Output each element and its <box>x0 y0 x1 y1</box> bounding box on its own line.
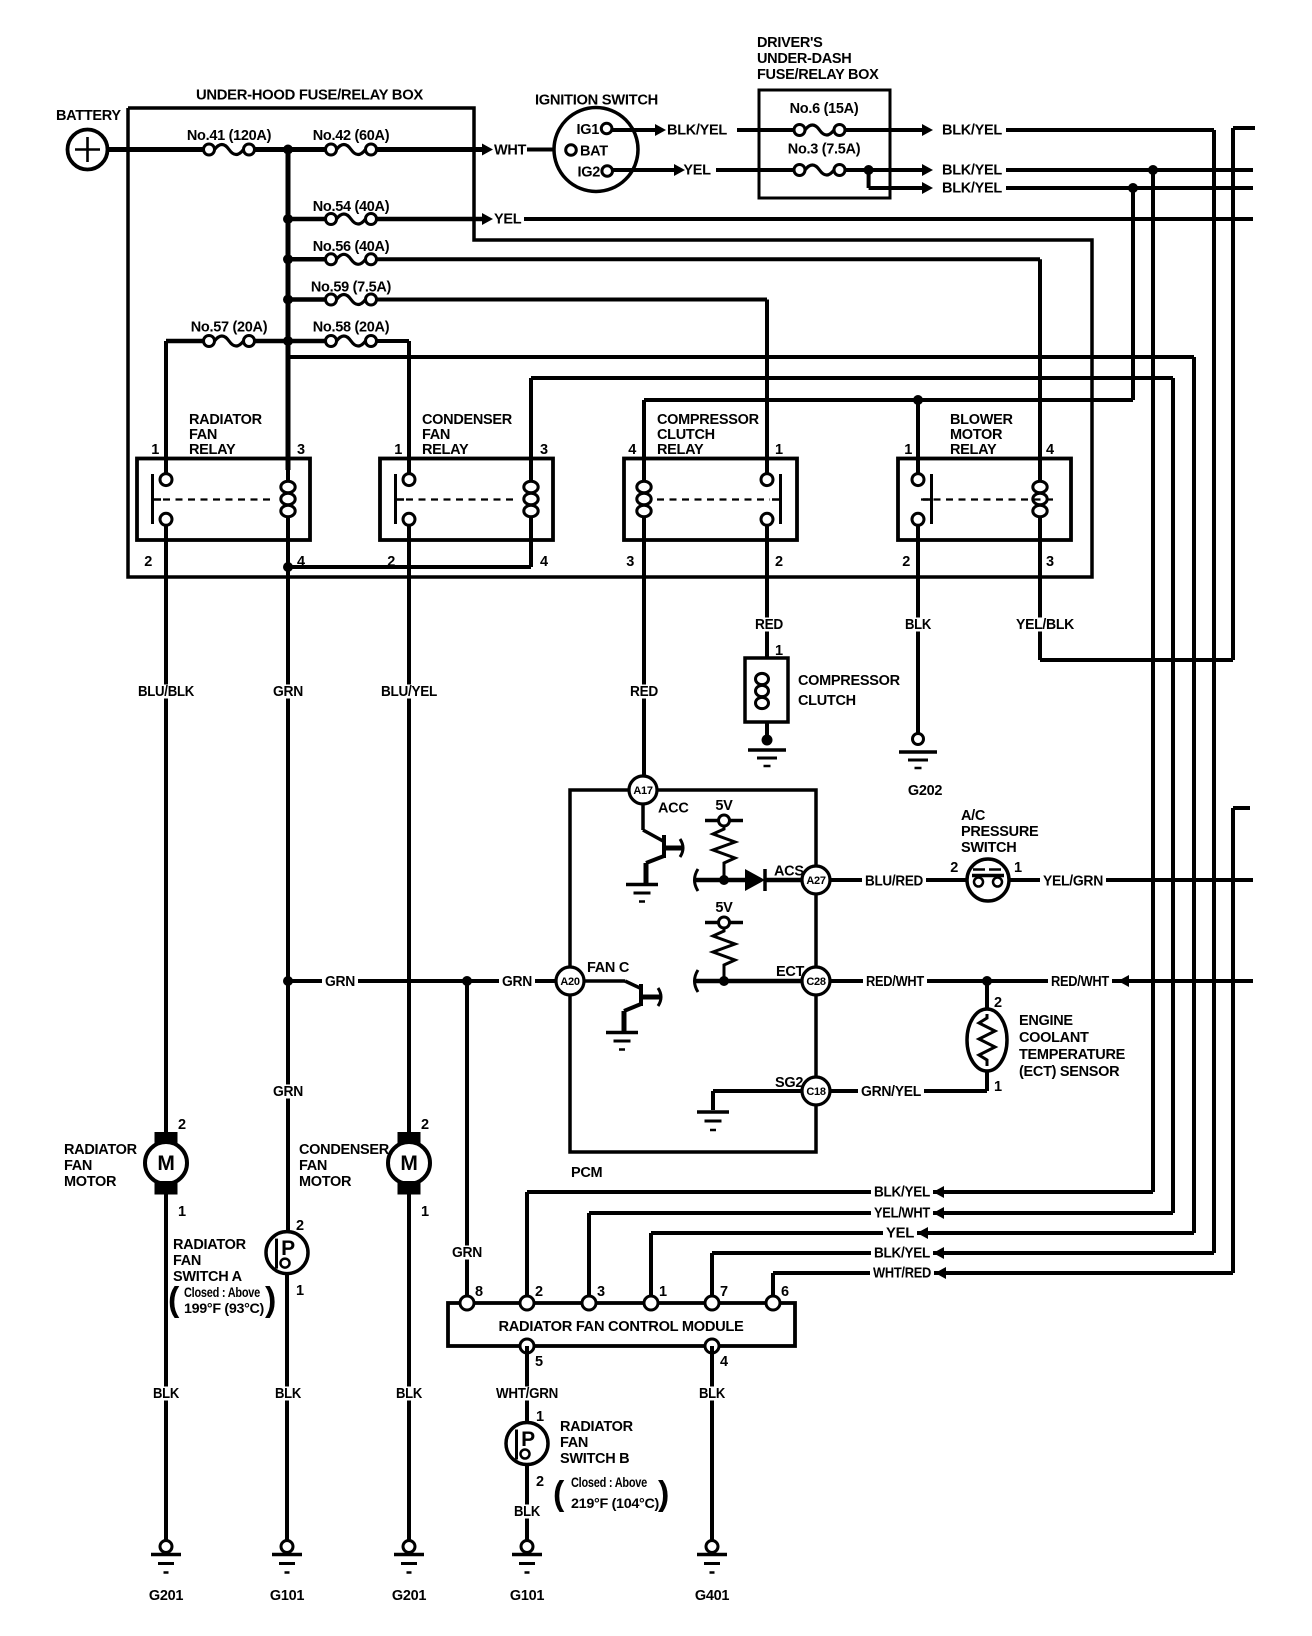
ground below compressor clutch <box>748 722 786 766</box>
svg-text:2: 2 <box>178 1117 186 1133</box>
wire BLU/RED to A/C pressure switch <box>830 874 967 890</box>
module pin 6 <box>766 1284 789 1310</box>
wire BLK/YEL to module pin 2 <box>527 1185 1153 1304</box>
svg-text:RED: RED <box>630 684 658 700</box>
svg-text:YEL: YEL <box>494 212 522 228</box>
svg-text:A17: A17 <box>633 785 652 797</box>
terminal IG1 <box>577 122 612 138</box>
svg-text:YEL: YEL <box>886 1226 914 1242</box>
node ECT junction <box>719 976 729 986</box>
svg-text:): ) <box>658 1475 669 1513</box>
relay radiator fan relay <box>137 412 310 570</box>
svg-text:No.57 (20A): No.57 (20A) <box>191 320 268 336</box>
svg-text:ECT: ECT <box>776 964 805 980</box>
wire GRN/YEL row <box>830 1084 987 1100</box>
svg-text:(: ( <box>168 1281 180 1319</box>
wire YEL long row <box>524 217 1253 221</box>
terminal IG2 <box>578 165 613 181</box>
wire battery to fuse box <box>108 147 203 152</box>
svg-text:1: 1 <box>151 442 159 458</box>
radiator fan control module box <box>448 1303 795 1346</box>
wire condenser pin2 column BLU/YEL <box>378 525 440 1132</box>
wire IG1 BLK/YEL to under-dash box <box>612 123 793 139</box>
svg-text:BAT: BAT <box>580 144 608 160</box>
module pin 8 <box>460 1284 483 1310</box>
svg-text:2: 2 <box>775 554 783 570</box>
node ECT sensor junction <box>982 976 992 986</box>
node bus No.59 <box>283 295 293 305</box>
svg-text:IG1: IG1 <box>577 122 600 138</box>
svg-text:2: 2 <box>902 554 910 570</box>
fuse No.59 (7.5A) <box>288 280 392 306</box>
svg-text:1: 1 <box>659 1284 667 1300</box>
svg-text:3: 3 <box>297 442 305 458</box>
svg-text:C28: C28 <box>806 976 825 988</box>
relay blower motor relay <box>898 412 1071 570</box>
svg-text:RADIATOR: RADIATOR <box>173 1237 247 1253</box>
svg-text:SWITCH A: SWITCH A <box>173 1269 243 1285</box>
node bus No.56 <box>283 254 293 264</box>
svg-text:3: 3 <box>626 554 634 570</box>
svg-text:RELAY: RELAY <box>422 442 469 458</box>
svg-text:BLK/YEL: BLK/YEL <box>667 123 727 139</box>
fuse No.54 (40A) <box>288 199 390 225</box>
svg-text:2: 2 <box>144 554 152 570</box>
svg-text:5V: 5V <box>715 798 733 814</box>
ground G401 module <box>695 1541 730 1605</box>
svg-text:4: 4 <box>540 554 548 570</box>
ground FAN C emitter <box>606 1033 638 1050</box>
ground G101 switch B <box>510 1541 545 1605</box>
svg-text:WHT/RED: WHT/RED <box>873 1266 931 1282</box>
wire No.59 to compressor relay pin 1 <box>377 300 768 474</box>
svg-text:G201: G201 <box>149 1588 184 1604</box>
condenser fan motor <box>299 1117 430 1220</box>
module pin 1 <box>644 1284 667 1310</box>
compressor clutch <box>745 658 901 722</box>
PCM box <box>570 790 816 1181</box>
svg-text:FAN: FAN <box>189 427 217 443</box>
svg-text:PRESSURE: PRESSURE <box>961 824 1039 840</box>
svg-text:Closed : Above: Closed : Above <box>184 1285 261 1300</box>
pin C28 <box>802 967 830 995</box>
svg-text:4: 4 <box>628 442 636 458</box>
svg-text:G101: G101 <box>270 1588 305 1604</box>
module pin 4 <box>705 1339 728 1370</box>
svg-text:FAN C: FAN C <box>587 960 630 976</box>
svg-text:M: M <box>400 1152 417 1175</box>
wire IG2 YEL to under-dash box <box>613 163 794 179</box>
wire WHT to BAT <box>527 148 566 152</box>
svg-text:C18: C18 <box>806 1086 825 1098</box>
svg-text:No.6 (15A): No.6 (15A) <box>790 101 859 117</box>
svg-text:BLK: BLK <box>699 1386 726 1402</box>
svg-text:MOTOR: MOTOR <box>950 427 1003 443</box>
svg-text:MOTOR: MOTOR <box>299 1174 352 1190</box>
svg-text:BLK: BLK <box>514 1504 541 1520</box>
A/C pressure switch <box>950 808 1039 901</box>
svg-text:A27: A27 <box>806 875 825 887</box>
node GRN module branch <box>462 976 472 986</box>
svg-text:BLK/YEL: BLK/YEL <box>942 163 1002 179</box>
svg-text:RADIATOR: RADIATOR <box>189 412 263 428</box>
wire No.58 to condenser relay pin 1 <box>288 341 409 474</box>
svg-text:RADIATOR FAN CONTROL MODULE: RADIATOR FAN CONTROL MODULE <box>499 1319 745 1335</box>
wire module pin5 WHT/GRN <box>493 1346 561 1423</box>
pin C18 <box>802 1077 830 1105</box>
svg-text:WHT: WHT <box>494 143 527 159</box>
svg-text:199°F (93°C): 199°F (93°C) <box>184 1301 264 1316</box>
svg-text:BLU/BLK: BLU/BLK <box>138 684 195 700</box>
under-hood fuse/relay box outline <box>128 108 1092 577</box>
label DRIVER'S UNDER-DASH FUSE/RELAY BOX <box>757 35 879 83</box>
svg-text:YEL: YEL <box>683 163 711 179</box>
fuse No.41 (120A) <box>187 128 272 155</box>
svg-text:YEL/GRN: YEL/GRN <box>1043 874 1103 890</box>
ignition switch <box>535 93 658 192</box>
module pin 5 <box>520 1339 543 1370</box>
svg-text:1: 1 <box>994 1079 1002 1095</box>
pin A27 <box>802 866 830 894</box>
relay condenser fan relay <box>380 412 553 570</box>
svg-text:BLK: BLK <box>905 617 932 633</box>
wire condenser motor to ground <box>393 1195 425 1541</box>
svg-text:1: 1 <box>904 442 912 458</box>
battery <box>56 108 121 170</box>
svg-text:219°F (104°C): 219°F (104°C) <box>571 1496 659 1511</box>
node bus top junction <box>283 145 293 155</box>
svg-text:IGNITION SWITCH: IGNITION SWITCH <box>535 93 658 109</box>
svg-text:BLK: BLK <box>396 1386 423 1402</box>
svg-text:5V: 5V <box>715 900 733 916</box>
svg-text:CLUTCH: CLUTCH <box>657 427 715 443</box>
wire module pin4 BLK to ground <box>696 1346 728 1541</box>
svg-text:1: 1 <box>296 1283 304 1299</box>
wire ECT row <box>695 964 805 992</box>
svg-text:2: 2 <box>421 1117 429 1133</box>
wire BLK/YEL to module pin 7 <box>712 1246 1214 1304</box>
wire BLK/YEL row3 vertical to relay feed row <box>1131 188 1135 400</box>
svg-text:No.54 (40A): No.54 (40A) <box>313 199 390 215</box>
svg-text:TEMPERATURE: TEMPERATURE <box>1019 1047 1126 1063</box>
svg-text:No.3 (7.5A): No.3 (7.5A) <box>788 142 861 158</box>
label ACC <box>658 801 689 817</box>
svg-text:COOLANT: COOLANT <box>1019 1030 1089 1046</box>
svg-text:UNDER-DASH: UNDER-DASH <box>757 51 851 67</box>
wire switch B to ground <box>511 1465 543 1541</box>
svg-text:2: 2 <box>535 1284 543 1300</box>
svg-text:FAN: FAN <box>173 1253 201 1269</box>
svg-text:No.41 (120A): No.41 (120A) <box>187 128 272 144</box>
wire No.57 to radiator relay pin 1 <box>166 341 288 474</box>
wire bus branch row to right margin <box>288 357 1194 1233</box>
svg-text:1: 1 <box>178 1204 186 1220</box>
module pin 2 <box>520 1284 543 1310</box>
wire fuse41 to bus junction <box>256 147 326 152</box>
5V source 2 <box>705 900 743 928</box>
wire YEL to module pin 1 <box>651 1226 1194 1304</box>
svg-text:BLK/YEL: BLK/YEL <box>874 1246 930 1262</box>
svg-text:BLK/YEL: BLK/YEL <box>874 1185 930 1201</box>
resistor R1 pull-up <box>713 826 735 876</box>
svg-text:1: 1 <box>536 1409 544 1425</box>
wire YEL/WHT to module pin 3 <box>589 1206 1173 1304</box>
svg-text:FAN: FAN <box>560 1435 588 1451</box>
svg-text:RELAY: RELAY <box>950 442 997 458</box>
relay compressor clutch relay <box>624 412 797 570</box>
ground ACC emitter <box>626 885 658 902</box>
svg-text:3: 3 <box>540 442 548 458</box>
svg-text:CLUTCH: CLUTCH <box>798 693 856 709</box>
svg-text:2: 2 <box>994 995 1002 1011</box>
svg-text:No.42 (60A): No.42 (60A) <box>313 128 390 144</box>
vertical bus after No.41 <box>286 150 291 471</box>
wire YEL/GRN row <box>1009 874 1253 890</box>
svg-text:5: 5 <box>535 1354 543 1370</box>
svg-text:8: 8 <box>475 1284 483 1300</box>
wire condenser coil pin3 feed row <box>531 378 1173 1213</box>
pin A17 <box>629 776 657 804</box>
svg-text:FUSE/RELAY BOX: FUSE/RELAY BOX <box>757 67 879 83</box>
svg-text:RED: RED <box>755 617 783 633</box>
svg-text:P: P <box>281 1237 295 1260</box>
terminal BAT <box>566 144 609 160</box>
wire blower relay pin 1 drop <box>916 400 920 474</box>
svg-text:3: 3 <box>1046 554 1054 570</box>
radiator fan motor <box>64 1117 187 1220</box>
svg-text:1: 1 <box>1014 860 1022 876</box>
wire GRN to module pin 8 <box>449 981 485 1303</box>
svg-text:FAN: FAN <box>64 1158 92 1174</box>
svg-text:BLOWER: BLOWER <box>950 412 1013 428</box>
svg-text:GRN: GRN <box>502 974 532 990</box>
label YEL <box>494 212 522 228</box>
node ACS junction <box>719 875 729 885</box>
wire WHT row to box edge <box>377 144 494 156</box>
svg-text:1: 1 <box>775 442 783 458</box>
wire YEL row to box edge <box>377 213 494 225</box>
label UNDER-HOOD FUSE/RELAY BOX <box>196 88 424 104</box>
svg-text:RADIATOR: RADIATOR <box>560 1419 634 1435</box>
wire BLK/YEL row2 <box>869 163 1253 179</box>
svg-text:4: 4 <box>1046 442 1054 458</box>
fuse No.42 (60A) <box>313 128 390 155</box>
svg-text:BLK: BLK <box>153 1386 180 1402</box>
svg-text:No.59 (7.5A): No.59 (7.5A) <box>311 280 392 296</box>
node BLK/YEL row3 branch <box>1128 183 1138 193</box>
svg-text:WHT/GRN: WHT/GRN <box>496 1386 558 1402</box>
svg-text:BLK/YEL: BLK/YEL <box>942 181 1002 197</box>
svg-text:FAN: FAN <box>299 1158 327 1174</box>
svg-text:SG2: SG2 <box>775 1075 803 1091</box>
svg-text:6: 6 <box>781 1284 789 1300</box>
wire radiator pin2 column BLU/BLK <box>135 525 197 1132</box>
wire BLK/YEL row3 <box>869 170 1253 197</box>
wire compressor pin2 to clutch RED <box>752 525 786 659</box>
wire radiator pin4 column GRN <box>270 521 306 1232</box>
wire ACS row <box>695 869 746 891</box>
svg-text:PCM: PCM <box>571 1165 603 1181</box>
wire GRN row to PCM A20 <box>283 974 556 990</box>
fuse No.3 (7.5A) <box>788 142 861 176</box>
svg-text:G201: G201 <box>392 1588 427 1604</box>
svg-text:GRN: GRN <box>273 1084 303 1100</box>
module pin 7 <box>705 1284 728 1310</box>
svg-text:G401: G401 <box>695 1588 730 1604</box>
svg-text:COMPRESSOR: COMPRESSOR <box>657 412 760 428</box>
svg-text:IG2: IG2 <box>578 165 601 181</box>
resistor R2 pull-up <box>713 928 735 977</box>
svg-text:2: 2 <box>296 1218 304 1234</box>
svg-text:2: 2 <box>536 1474 544 1490</box>
ground G201 condenser motor <box>392 1541 427 1605</box>
label FAN C <box>587 960 630 976</box>
svg-text:G202: G202 <box>908 783 943 799</box>
diode D1 <box>745 869 765 891</box>
svg-text:ACC: ACC <box>658 801 689 817</box>
node bus No.57/58 <box>283 336 293 346</box>
radiator fan switch B <box>506 1409 669 1513</box>
pin A20 <box>556 967 584 995</box>
svg-text:BLK: BLK <box>275 1386 302 1402</box>
svg-text:MOTOR: MOTOR <box>64 1174 117 1190</box>
ECT sensor <box>967 981 1126 1095</box>
ground G201 radiator motor <box>149 1541 184 1605</box>
svg-text:FAN: FAN <box>422 427 450 443</box>
svg-text:No.58 (20A): No.58 (20A) <box>313 320 390 336</box>
wire radiator motor to ground <box>150 1195 182 1541</box>
svg-text:SWITCH B: SWITCH B <box>560 1451 629 1467</box>
svg-text:ACS: ACS <box>774 864 804 880</box>
svg-text:3: 3 <box>597 1284 605 1300</box>
svg-text:GRN: GRN <box>273 684 303 700</box>
svg-text:GRN/YEL: GRN/YEL <box>861 1084 921 1100</box>
svg-text:A/C: A/C <box>961 808 986 824</box>
label SG2 <box>775 1075 803 1091</box>
svg-text:Closed : Above: Closed : Above <box>571 1475 648 1490</box>
5V source 1 <box>705 798 743 826</box>
fuse No.57 (20A) <box>191 320 268 347</box>
svg-text:BLK/YEL: BLK/YEL <box>942 123 1002 139</box>
svg-text:RADIATOR: RADIATOR <box>64 1142 138 1158</box>
wire blower pin2 BLK to G202 <box>902 525 934 733</box>
svg-text:): ) <box>265 1281 276 1319</box>
node blower pin1 junction <box>913 395 923 405</box>
under-dash fuse/relay box outline <box>759 90 890 198</box>
svg-text:RED/WHT: RED/WHT <box>1051 974 1109 990</box>
ground G101 switch A <box>270 1541 305 1605</box>
module pin 3 <box>582 1284 605 1310</box>
svg-text:A20: A20 <box>560 976 579 988</box>
svg-text:M: M <box>157 1152 174 1175</box>
wire BLK/YEL row1 <box>846 123 1214 139</box>
svg-text:BATTERY: BATTERY <box>56 108 121 124</box>
svg-text:RELAY: RELAY <box>657 442 704 458</box>
wire condenser pin4 link <box>288 540 531 567</box>
svg-text:(ECT) SENSOR: (ECT) SENSOR <box>1019 1064 1120 1080</box>
wire BLK/YEL row2 vertical <box>1151 170 1155 1192</box>
transistor FAN C <box>584 981 661 1032</box>
wire blower pin3 YEL/BLK <box>1013 128 1255 660</box>
svg-text:SWITCH: SWITCH <box>961 840 1016 856</box>
svg-text:CONDENSER: CONDENSER <box>422 412 513 428</box>
svg-text:No.56 (40A): No.56 (40A) <box>313 239 390 255</box>
svg-text:G101: G101 <box>510 1588 545 1604</box>
svg-text:YEL/WHT: YEL/WHT <box>874 1206 930 1222</box>
wire No.56 to blower relay pin 4 <box>377 259 1041 473</box>
svg-text:(: ( <box>553 1475 565 1513</box>
svg-text:BLU/YEL: BLU/YEL <box>381 684 437 700</box>
svg-text:RELAY: RELAY <box>189 442 236 458</box>
fuse No.58 (20A) <box>313 320 390 347</box>
wire RED/WHT row <box>830 974 1253 990</box>
wire SG2 to internal ground <box>713 1091 802 1110</box>
wire switch A to ground <box>272 1274 304 1541</box>
svg-text:GRN: GRN <box>325 974 355 990</box>
fuse No.56 (40A) <box>288 239 390 265</box>
transistor ACC <box>643 804 683 884</box>
svg-text:CONDENSER: CONDENSER <box>299 1142 390 1158</box>
svg-text:P: P <box>521 1428 535 1451</box>
ground G202 <box>899 734 942 800</box>
svg-text:7: 7 <box>720 1284 728 1300</box>
svg-text:GRN: GRN <box>452 1245 482 1261</box>
label ACS <box>765 864 804 881</box>
svg-text:4: 4 <box>720 1354 728 1370</box>
node bus No.54 <box>283 214 293 224</box>
label WHT <box>494 143 527 159</box>
node after fuse No.3 <box>846 165 874 175</box>
svg-text:BLU/RED: BLU/RED <box>865 874 923 890</box>
svg-text:1: 1 <box>394 442 402 458</box>
svg-text:UNDER-HOOD FUSE/RELAY BOX: UNDER-HOOD FUSE/RELAY BOX <box>196 88 424 104</box>
svg-text:YEL/BLK: YEL/BLK <box>1016 617 1075 633</box>
radiator fan switch A <box>168 1218 308 1319</box>
wire relay coil feed row <box>644 400 1133 474</box>
node BLK/YEL row2 branch <box>1148 165 1158 175</box>
wire compressor pin3 to PCM A17 RED <box>627 525 661 776</box>
svg-text:ENGINE: ENGINE <box>1019 1013 1073 1029</box>
svg-text:2: 2 <box>950 860 958 876</box>
svg-text:RED/WHT: RED/WHT <box>866 974 924 990</box>
wire BLK/YEL row1 vertical <box>1212 130 1216 1253</box>
svg-text:DRIVER'S: DRIVER'S <box>757 35 823 51</box>
ground SG2 <box>697 1112 729 1130</box>
fuse No.6 (15A) <box>790 101 859 136</box>
wire WHT/RED to module pin 6 <box>773 808 1250 1303</box>
svg-text:1: 1 <box>421 1204 429 1220</box>
svg-text:COMPRESSOR: COMPRESSOR <box>798 673 901 689</box>
